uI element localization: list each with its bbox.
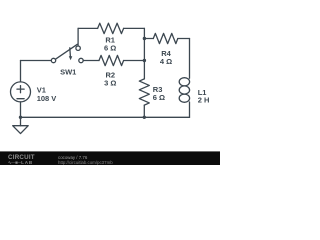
svg-text:SW1: SW1 <box>60 68 76 77</box>
svg-text:108 V: 108 V <box>37 94 57 103</box>
svg-text:6 Ω: 6 Ω <box>153 93 165 102</box>
svg-text:2 H: 2 H <box>198 96 210 105</box>
svg-text:4 Ω: 4 Ω <box>160 57 172 66</box>
svg-text:3 Ω: 3 Ω <box>104 78 116 87</box>
svg-text:6 Ω: 6 Ω <box>104 44 116 53</box>
